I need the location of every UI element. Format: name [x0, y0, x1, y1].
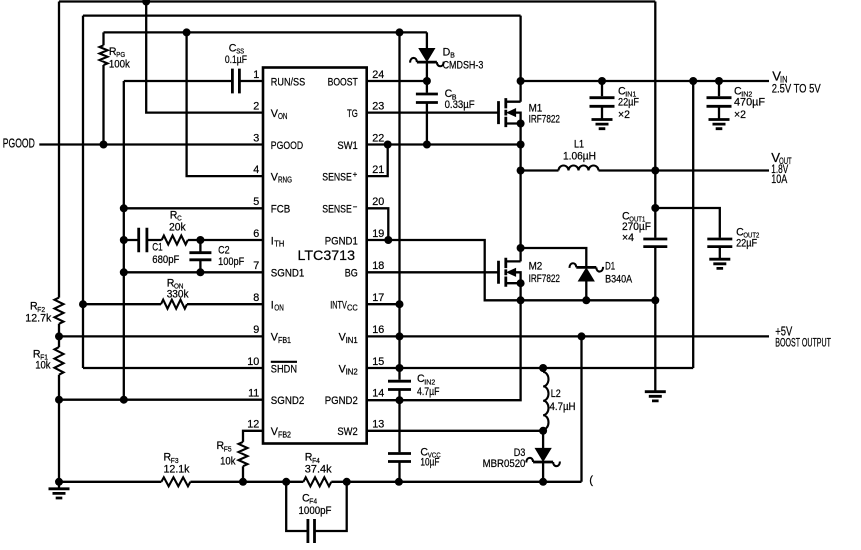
svg-text:24: 24: [372, 69, 384, 81]
svg-text:1: 1: [253, 69, 259, 81]
svg-text:22µF: 22µF: [618, 97, 639, 109]
svg-text:3: 3: [253, 132, 259, 144]
svg-text:BOOST OUTPUT: BOOST OUTPUT: [775, 336, 831, 350]
svg-text:21: 21: [372, 164, 384, 176]
svg-text:SENSE: SENSE: [322, 204, 352, 216]
svg-text:12.1k: 12.1k: [164, 463, 191, 475]
svg-text:BOOST: BOOST: [328, 76, 359, 88]
svg-text:C2: C2: [218, 245, 230, 257]
svg-text:F5: F5: [224, 444, 232, 453]
svg-text:8: 8: [253, 292, 259, 304]
svg-text:CC: CC: [347, 304, 358, 313]
svg-text:+: +: [353, 170, 358, 179]
svg-text:19: 19: [372, 228, 384, 240]
svg-text:18: 18: [372, 260, 384, 272]
svg-text:11: 11: [248, 388, 259, 400]
svg-text:ON: ON: [278, 112, 288, 121]
svg-text:IN1: IN1: [346, 336, 359, 345]
svg-text:MBR0520: MBR0520: [483, 458, 526, 470]
svg-text:M2: M2: [529, 260, 543, 272]
svg-text:12.7k: 12.7k: [25, 312, 52, 324]
svg-text:×2: ×2: [618, 109, 630, 121]
svg-text:FB1: FB1: [278, 336, 291, 345]
svg-text:FB2: FB2: [278, 430, 291, 439]
svg-text:10k: 10k: [220, 455, 236, 467]
svg-text:15: 15: [372, 356, 384, 368]
svg-text:PGOOD: PGOOD: [3, 135, 35, 150]
svg-text:1000pF: 1000pF: [299, 505, 332, 517]
svg-text:100k: 100k: [109, 59, 131, 71]
svg-text:ON: ON: [274, 304, 284, 313]
svg-text:D1: D1: [605, 260, 615, 272]
svg-text:7: 7: [253, 260, 259, 272]
svg-text:680pF: 680pF: [152, 254, 180, 266]
svg-text:(: (: [589, 474, 593, 486]
svg-text:16: 16: [372, 324, 384, 336]
svg-text:5: 5: [253, 196, 259, 208]
svg-text:10k: 10k: [35, 359, 51, 371]
svg-text:22: 22: [372, 132, 384, 144]
svg-text:4.7µH: 4.7µH: [550, 401, 576, 413]
svg-text:2: 2: [253, 100, 259, 112]
svg-text:L1: L1: [574, 139, 584, 151]
svg-text:LTC3713: LTC3713: [298, 247, 356, 263]
svg-text:0.33µF: 0.33µF: [445, 99, 475, 111]
svg-text:13: 13: [372, 419, 384, 431]
svg-text:INTV: INTV: [330, 300, 347, 312]
svg-text:TG: TG: [347, 108, 358, 120]
svg-text:4.7µF: 4.7µF: [417, 386, 440, 398]
svg-text:IN2: IN2: [346, 368, 359, 377]
svg-text:SGND1: SGND1: [271, 268, 305, 280]
svg-text:L2: L2: [551, 388, 561, 400]
svg-text:23: 23: [372, 100, 384, 112]
svg-text:RNG: RNG: [278, 176, 292, 185]
svg-text:10A: 10A: [771, 172, 787, 186]
svg-text:BG: BG: [345, 268, 358, 280]
svg-text:B340A: B340A: [605, 273, 633, 285]
svg-text:PGND1: PGND1: [325, 235, 358, 247]
svg-text:PGOOD: PGOOD: [271, 140, 303, 152]
svg-text:0.1µF: 0.1µF: [225, 54, 248, 66]
svg-text:12: 12: [247, 419, 259, 431]
svg-text:2.5V TO 5V: 2.5V TO 5V: [772, 81, 821, 95]
svg-text:IRF7822: IRF7822: [529, 273, 560, 285]
svg-text:CMDSH-3: CMDSH-3: [443, 59, 484, 71]
svg-text:14: 14: [372, 388, 384, 400]
svg-text:100pF: 100pF: [218, 256, 245, 268]
svg-text:×2: ×2: [734, 109, 746, 121]
svg-text:×4: ×4: [622, 232, 634, 244]
svg-text:270µF: 270µF: [622, 221, 651, 233]
svg-text:330k: 330k: [167, 289, 189, 301]
svg-text:SW1: SW1: [337, 140, 357, 152]
svg-text:PGND2: PGND2: [325, 395, 358, 407]
svg-text:1.06µH: 1.06µH: [563, 151, 596, 163]
svg-text:−: −: [353, 202, 358, 211]
svg-text:4: 4: [253, 164, 259, 176]
svg-text:TH: TH: [274, 240, 284, 249]
svg-text:RUN/SS: RUN/SS: [271, 76, 305, 88]
svg-text:SGND2: SGND2: [271, 395, 305, 407]
svg-text:9: 9: [253, 324, 259, 336]
svg-text:10µF: 10µF: [420, 456, 439, 468]
svg-text:37.4k: 37.4k: [305, 463, 333, 475]
svg-text:SENSE: SENSE: [322, 171, 352, 183]
svg-text:IRF7822: IRF7822: [529, 113, 560, 125]
svg-text:20k: 20k: [169, 222, 186, 234]
svg-text:SW2: SW2: [337, 426, 357, 438]
svg-text:B: B: [450, 51, 455, 60]
svg-text:470µF: 470µF: [734, 97, 766, 109]
svg-text:6: 6: [253, 228, 259, 240]
svg-text:17: 17: [372, 292, 384, 304]
svg-text:20: 20: [372, 196, 384, 208]
svg-text:C1: C1: [152, 241, 162, 253]
svg-text:22µF: 22µF: [736, 237, 757, 249]
svg-text:FCB: FCB: [271, 204, 291, 216]
svg-text:SHDN: SHDN: [271, 363, 297, 375]
svg-text:10: 10: [247, 356, 259, 368]
